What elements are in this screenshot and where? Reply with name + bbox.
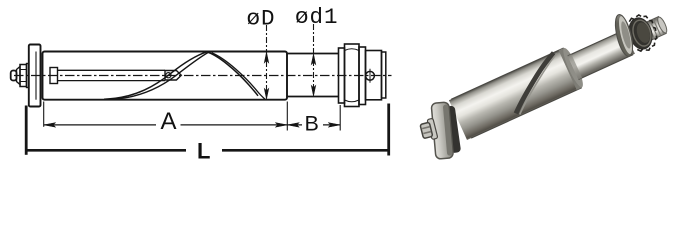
svg-text:B: B [305,112,319,136]
svg-text:L: L [197,138,210,163]
svg-text:ød1: ød1 [295,4,339,30]
svg-text:A: A [161,108,177,135]
svg-text:øD: øD [247,5,276,31]
